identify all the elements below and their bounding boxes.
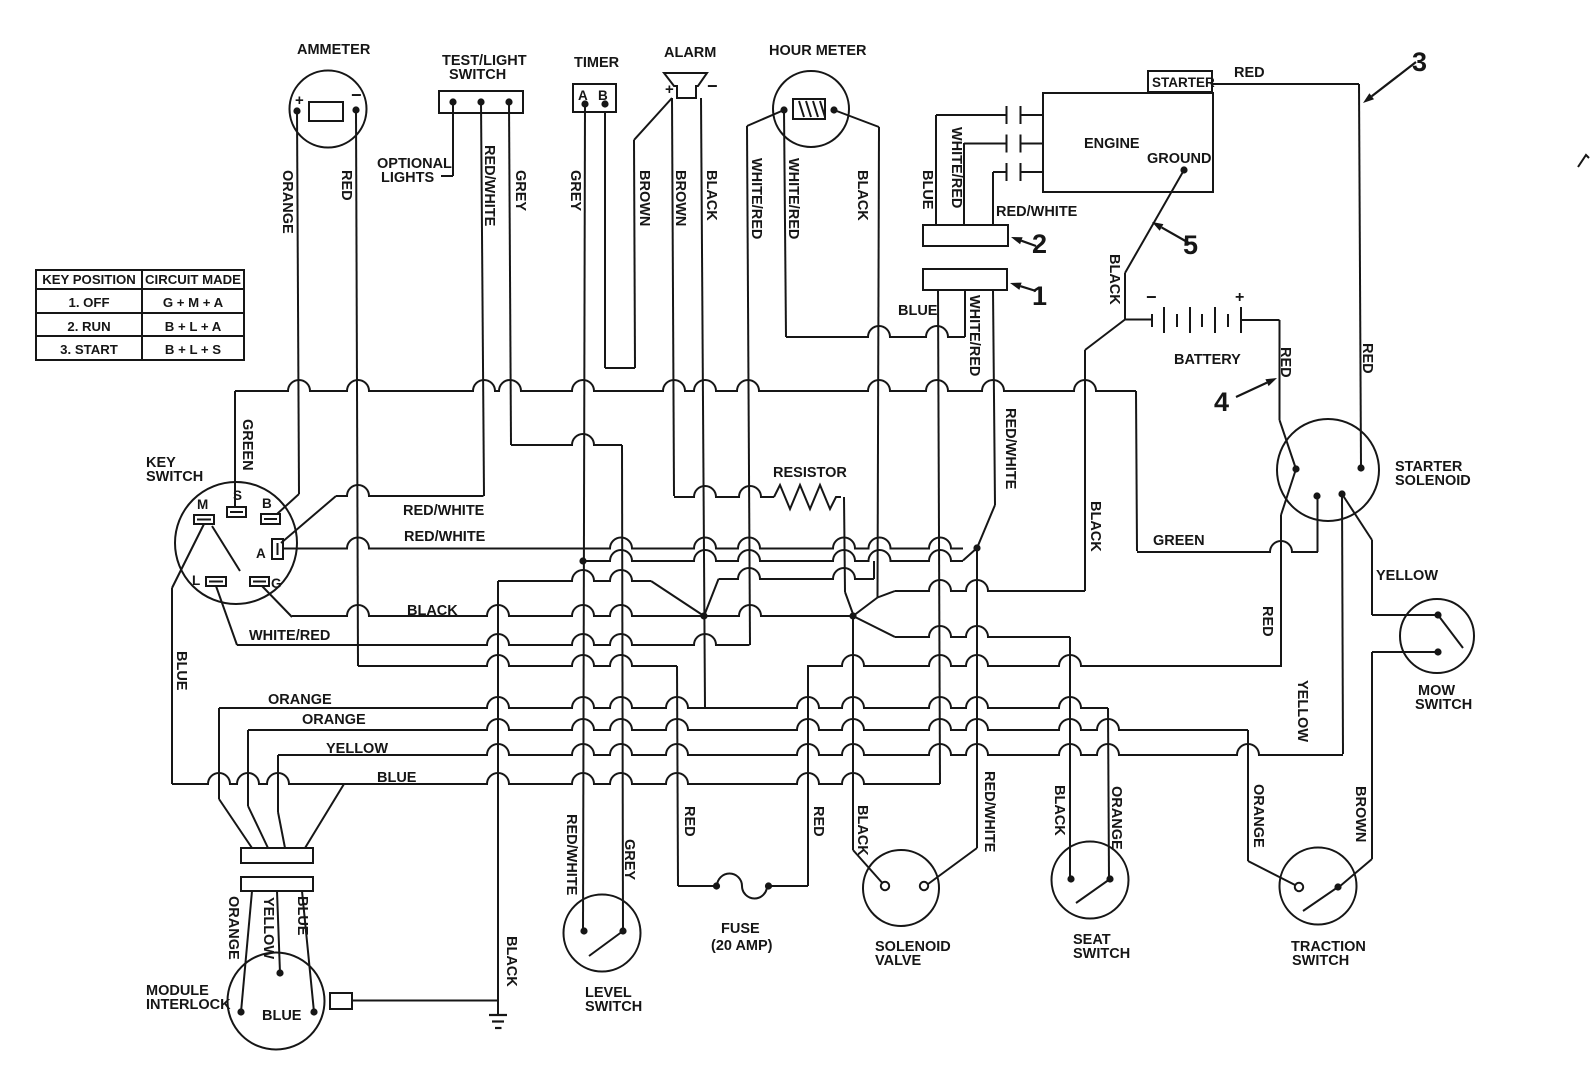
svg-text:FUSE: FUSE: [721, 921, 760, 937]
svg-text:1: 1: [1032, 281, 1047, 311]
svg-text:HOUR METER: HOUR METER: [769, 43, 867, 59]
svg-text:ORANGE: ORANGE: [1108, 786, 1124, 850]
svg-text:2: 2: [1032, 229, 1047, 259]
svg-text:ORANGE: ORANGE: [225, 896, 241, 960]
svg-text:RED: RED: [1259, 606, 1275, 637]
svg-text:+: +: [295, 92, 304, 109]
svg-text:VALVE: VALVE: [875, 953, 922, 969]
svg-text:RED: RED: [681, 806, 697, 837]
svg-text:BLACK: BLACK: [1106, 254, 1122, 305]
svg-text:BLACK: BLACK: [407, 603, 458, 619]
svg-text:G + M + A: G + M + A: [163, 295, 224, 310]
svg-text:TIMER: TIMER: [574, 55, 620, 71]
svg-text:STARTER: STARTER: [1152, 75, 1215, 90]
svg-text:ORANGE: ORANGE: [302, 712, 366, 728]
svg-text:GREY: GREY: [512, 170, 528, 211]
svg-text:BLACK: BLACK: [503, 936, 519, 987]
svg-text:BLACK: BLACK: [854, 170, 870, 221]
svg-text:ALARM: ALARM: [664, 45, 716, 61]
svg-text:SWITCH: SWITCH: [1292, 953, 1349, 969]
svg-text:+: +: [665, 81, 674, 98]
svg-text:3: 3: [1412, 47, 1427, 77]
svg-text:B: B: [598, 88, 608, 103]
svg-text:SOLENOID: SOLENOID: [1395, 473, 1471, 489]
svg-text:2. RUN: 2. RUN: [67, 319, 110, 334]
svg-text:−: −: [1146, 287, 1157, 307]
svg-text:3. START: 3. START: [60, 342, 118, 357]
svg-text:4: 4: [1214, 387, 1229, 417]
svg-text:YELLOW: YELLOW: [260, 897, 276, 959]
svg-text:RED: RED: [810, 806, 826, 837]
svg-text:RED/WHITE: RED/WHITE: [996, 204, 1078, 220]
svg-text:GREEN: GREEN: [239, 419, 255, 471]
svg-text:5: 5: [1183, 230, 1198, 260]
svg-text:ORANGE: ORANGE: [279, 170, 295, 234]
svg-text:RED: RED: [1277, 347, 1293, 378]
svg-text:SWITCH: SWITCH: [1073, 946, 1130, 962]
svg-text:−: −: [351, 85, 362, 105]
svg-text:WHITE/RED: WHITE/RED: [785, 158, 801, 239]
svg-text:BLUE: BLUE: [898, 303, 938, 319]
svg-text:WHITE/RED: WHITE/RED: [948, 127, 964, 208]
svg-text:SWITCH: SWITCH: [449, 67, 506, 83]
svg-text:B: B: [262, 496, 272, 511]
svg-text:−: −: [707, 76, 718, 96]
svg-text:RED: RED: [1359, 343, 1375, 374]
svg-text:ENGINE: ENGINE: [1084, 136, 1140, 152]
svg-text:AMMETER: AMMETER: [297, 42, 371, 58]
svg-text:WHITE/RED: WHITE/RED: [249, 628, 330, 644]
svg-text:SWITCH: SWITCH: [1415, 697, 1472, 713]
svg-text:GREY: GREY: [567, 170, 583, 211]
svg-text:RED: RED: [338, 170, 354, 201]
svg-text:RED/WHITE: RED/WHITE: [1002, 408, 1018, 490]
svg-text:CIRCUIT MADE: CIRCUIT MADE: [145, 272, 241, 287]
svg-text:BLUE: BLUE: [377, 770, 417, 786]
svg-text:ORANGE: ORANGE: [1250, 784, 1266, 848]
svg-text:BROWN: BROWN: [1352, 786, 1368, 842]
svg-text:BLUE: BLUE: [173, 651, 189, 691]
svg-text:GROUND: GROUND: [1147, 151, 1211, 167]
svg-text:BLUE: BLUE: [262, 1008, 302, 1024]
svg-text:BLACK: BLACK: [703, 170, 719, 221]
svg-text:RED/WHITE: RED/WHITE: [563, 814, 579, 896]
svg-text:RED/WHITE: RED/WHITE: [403, 503, 485, 519]
svg-text:ORANGE: ORANGE: [268, 692, 332, 708]
svg-text:BLACK: BLACK: [1087, 501, 1103, 552]
svg-text:1. OFF: 1. OFF: [68, 295, 109, 310]
svg-text:RED/WHITE: RED/WHITE: [981, 771, 997, 853]
svg-text:SWITCH: SWITCH: [585, 999, 642, 1015]
svg-text:GREEN: GREEN: [1153, 533, 1205, 549]
svg-text:BLUE: BLUE: [919, 170, 935, 210]
svg-text:INTERLOCK: INTERLOCK: [146, 997, 231, 1013]
svg-text:M: M: [197, 497, 208, 512]
svg-text:BROWN: BROWN: [672, 170, 688, 226]
svg-text:RED/WHITE: RED/WHITE: [481, 145, 497, 227]
svg-text:+: +: [1235, 289, 1244, 306]
svg-text:S: S: [233, 488, 242, 503]
svg-text:WHITE/RED: WHITE/RED: [748, 158, 764, 239]
svg-text:YELLOW: YELLOW: [1294, 680, 1310, 742]
svg-text:YELLOW: YELLOW: [326, 741, 388, 757]
svg-text:RED: RED: [1234, 65, 1265, 81]
svg-text:BROWN: BROWN: [636, 170, 652, 226]
svg-text:BLUE: BLUE: [294, 896, 310, 936]
svg-text:B + L + A: B + L + A: [165, 319, 222, 334]
svg-text:G: G: [271, 576, 282, 591]
svg-text:LIGHTS: LIGHTS: [381, 170, 434, 186]
svg-text:YELLOW: YELLOW: [1376, 568, 1438, 584]
svg-text:RESISTOR: RESISTOR: [773, 465, 847, 481]
svg-text:WHITE/RED: WHITE/RED: [966, 295, 982, 376]
svg-text:KEY POSITION: KEY POSITION: [42, 272, 136, 287]
svg-text:BATTERY: BATTERY: [1174, 352, 1241, 368]
svg-text:A: A: [578, 88, 588, 103]
svg-text:RED/WHITE: RED/WHITE: [404, 529, 486, 545]
svg-text:GREY: GREY: [621, 839, 637, 880]
svg-text:A: A: [256, 546, 266, 561]
svg-text:(20 AMP): (20 AMP): [711, 938, 773, 954]
svg-text:L: L: [192, 573, 200, 588]
svg-text:BLACK: BLACK: [1051, 785, 1067, 836]
svg-text:BLACK: BLACK: [854, 805, 870, 856]
svg-text:B + L + S: B + L + S: [165, 342, 221, 357]
svg-text:SWITCH: SWITCH: [146, 469, 203, 485]
